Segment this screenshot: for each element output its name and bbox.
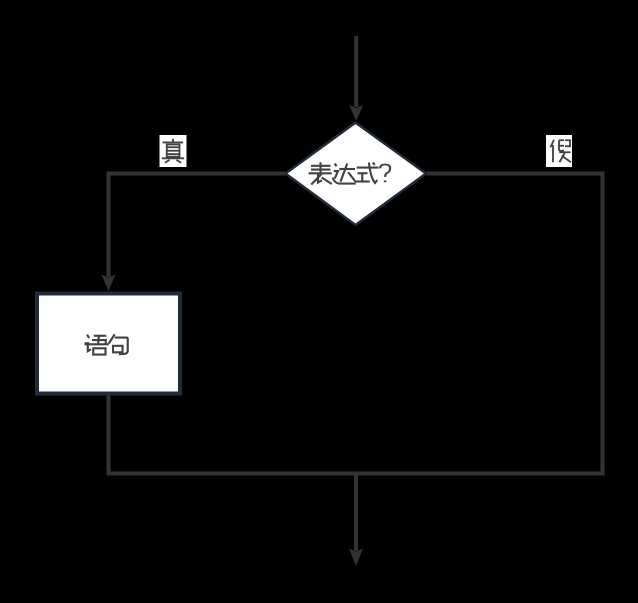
box text char 句: [109, 334, 128, 354]
wire: true branch (diamond left to box): [109, 174, 286, 278]
label background false: [546, 135, 572, 167]
diamond text char 达: [333, 164, 356, 184]
label background true: [160, 135, 187, 167]
arrowhead: into statement box: [102, 275, 116, 292]
label text 真 (true): [162, 139, 184, 163]
arrowhead: exit: [349, 549, 363, 567]
diamond text char 式: [356, 163, 379, 184]
diamond text char 表: [309, 162, 332, 184]
box text char 语: [85, 335, 109, 355]
label text 假 (false): [551, 140, 572, 163]
wire: false branch (diamond right, down right side): [427, 174, 603, 474]
wire: exit shaft: [354, 474, 358, 552]
wire: bottom merge line: [107, 472, 605, 476]
diamond text char ?: [380, 165, 390, 183]
wire: top entry shaft: [354, 36, 358, 107]
decision diamond 表达式?: [286, 123, 427, 225]
wire: box bottom down to merge line: [107, 396, 111, 474]
arrowhead: top entry into diamond: [349, 105, 363, 121]
process box 语句: [37, 294, 180, 394]
